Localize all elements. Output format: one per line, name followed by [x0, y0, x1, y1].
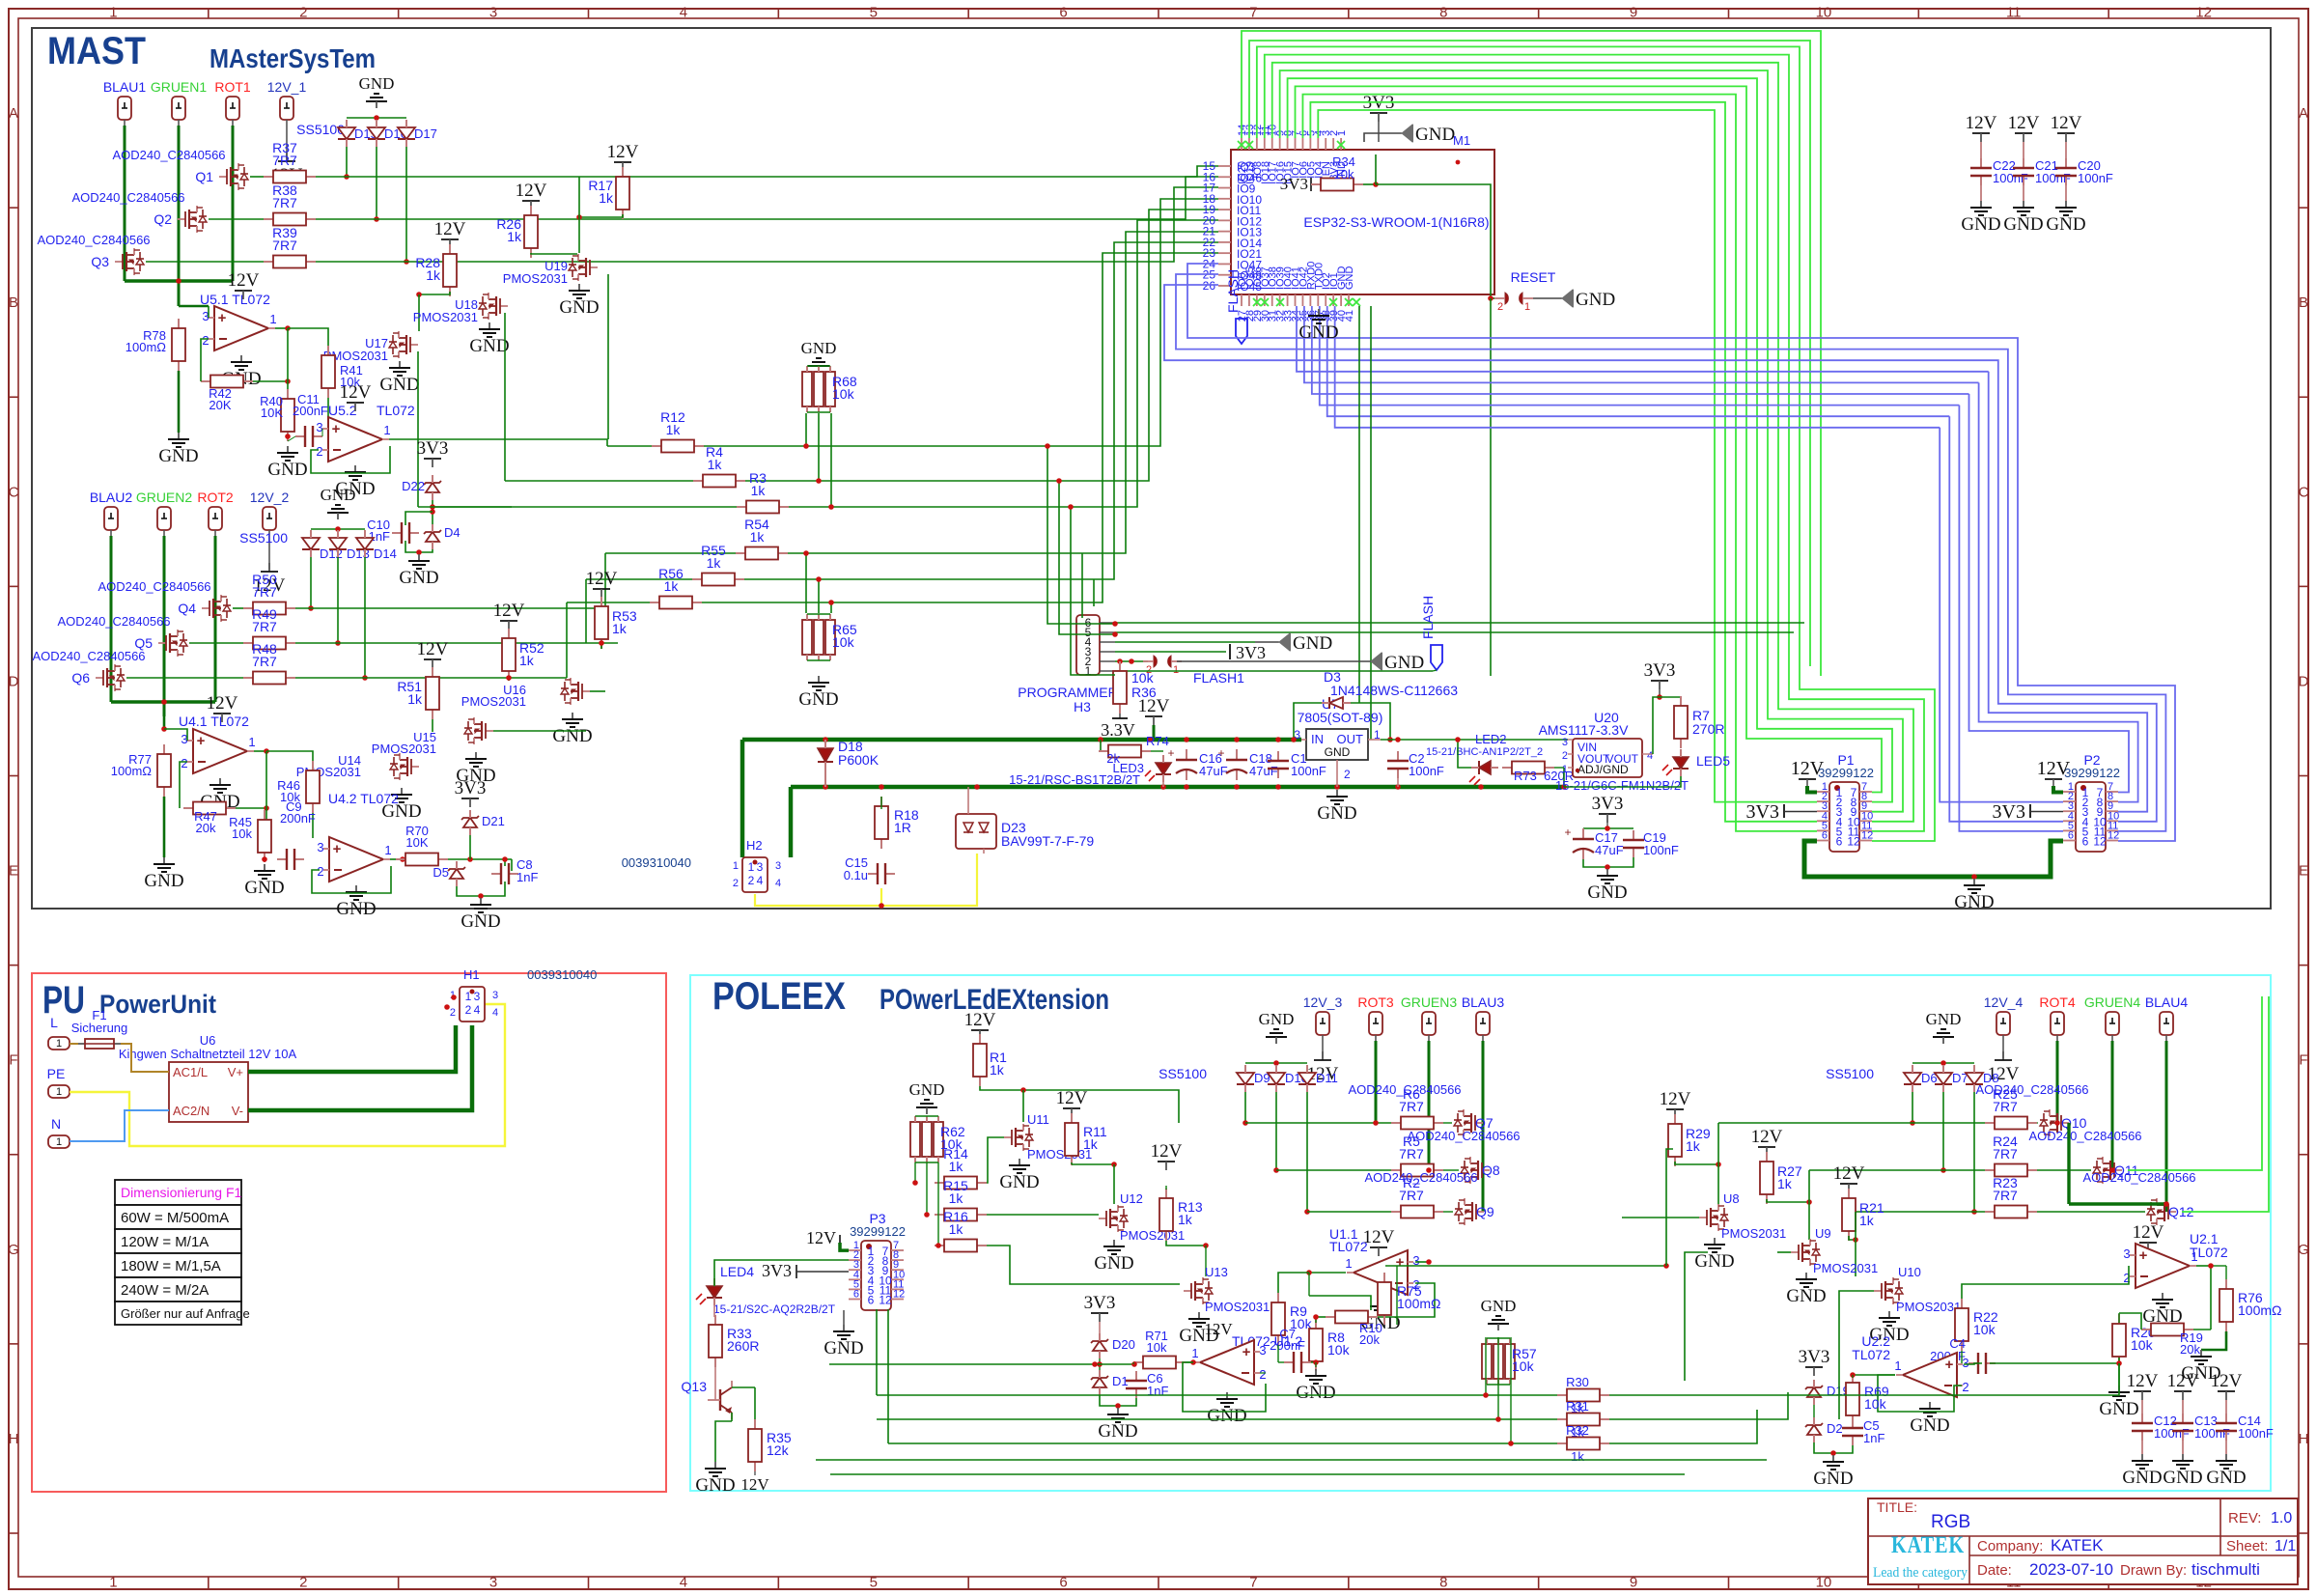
svg-text:7: 7 [1249, 1575, 1257, 1591]
svg-text:3V3: 3V3 [1799, 1347, 1830, 1367]
svg-text:GRUEN3: GRUEN3 [1401, 994, 1458, 1010]
svg-text:IN: IN [1311, 732, 1324, 746]
svg-text:2: 2 [450, 1007, 456, 1019]
svg-text:12k: 12k [767, 1442, 790, 1458]
svg-text:3: 3 [775, 860, 781, 872]
svg-text:7R7: 7R7 [272, 238, 297, 253]
svg-text:SS5100: SS5100 [296, 122, 345, 137]
svg-text:D22: D22 [402, 479, 425, 493]
svg-text:GND: GND [824, 1338, 863, 1358]
svg-text:12V: 12V [2167, 1371, 2199, 1391]
svg-text:Sicherung: Sicherung [71, 1021, 128, 1035]
svg-text:12V: 12V [2127, 1371, 2159, 1391]
svg-text:AOD240_C2840566: AOD240_C2840566 [112, 148, 225, 162]
svg-text:PU: PU [42, 979, 85, 1022]
svg-text:47uF: 47uF [1595, 843, 1624, 857]
svg-text:3V3: 3V3 [1084, 1293, 1116, 1313]
svg-text:PMOS2031: PMOS2031 [372, 742, 436, 756]
svg-text:GND: GND [1786, 1286, 1826, 1306]
svg-text:1k: 1k [708, 457, 723, 472]
svg-text:1k: 1k [407, 691, 423, 707]
svg-text:12V_2: 12V_2 [250, 490, 290, 505]
svg-text:GND: GND [2122, 1468, 2162, 1488]
svg-text:ROT1: ROT1 [214, 79, 251, 95]
svg-text:GND: GND [909, 1080, 945, 1099]
svg-text:C: C [2299, 484, 2309, 500]
svg-text:2: 2 [299, 5, 307, 21]
svg-text:260R: 260R [727, 1338, 759, 1354]
svg-text:1: 1 [733, 860, 739, 872]
svg-text:GND: GND [1576, 290, 1615, 310]
svg-text:GND: GND [2206, 1468, 2246, 1488]
svg-text:1: 1 [109, 5, 117, 21]
svg-text:KATEK: KATEK [2051, 1536, 2104, 1554]
svg-text:GND: GND [1926, 1010, 1962, 1028]
svg-text:7R7: 7R7 [272, 195, 297, 210]
svg-text:R74: R74 [1146, 734, 1169, 748]
svg-text:L: L [50, 1015, 58, 1030]
svg-text:GND: GND [2003, 214, 2043, 235]
svg-text:12V_3: 12V_3 [1303, 994, 1343, 1010]
svg-text:PMOS2031: PMOS2031 [1721, 1226, 1786, 1241]
svg-text:POLEEX: POLEEX [712, 975, 846, 1018]
svg-text:100mΩ: 100mΩ [126, 340, 167, 354]
svg-text:GND: GND [695, 1475, 735, 1496]
svg-text:PMOS2031: PMOS2031 [1896, 1300, 1961, 1314]
svg-text:ESP32-S3-WROOM-1(N16R8): ESP32-S3-WROOM-1(N16R8) [1303, 214, 1489, 230]
svg-text:12V: 12V [1056, 1088, 1088, 1108]
svg-text:GND: GND [1098, 1421, 1137, 1442]
svg-text:ROT2: ROT2 [197, 490, 234, 505]
svg-text:+: + [333, 841, 342, 857]
svg-text:1: 1 [1173, 664, 1179, 676]
svg-text:12V_4: 12V_4 [1984, 994, 2024, 1010]
svg-text:GND: GND [399, 568, 438, 588]
svg-text:PMOS2031: PMOS2031 [1813, 1261, 1878, 1275]
svg-text:+: + [1217, 746, 1224, 760]
svg-text:F: F [9, 1052, 17, 1069]
svg-text:RGB: RGB [1931, 1512, 1970, 1532]
svg-text:6: 6 [868, 1294, 875, 1307]
svg-text:Dimensionierung F1: Dimensionierung F1 [121, 1185, 241, 1200]
svg-text:GND: GND [158, 446, 198, 466]
svg-text:H3: H3 [1074, 699, 1091, 714]
svg-text:2: 2 [299, 1575, 307, 1591]
svg-text:A: A [2299, 105, 2308, 122]
svg-text:1R: 1R [894, 820, 911, 835]
svg-text:AOD240_C2840566: AOD240_C2840566 [98, 579, 210, 594]
svg-text:26: 26 [1203, 279, 1216, 293]
svg-text:15-21/G6C-FM1N2B/2T: 15-21/G6C-FM1N2B/2T [1555, 778, 1689, 793]
svg-text:PMOS2031: PMOS2031 [1205, 1300, 1270, 1314]
svg-text:AOD240_C2840566: AOD240_C2840566 [57, 614, 170, 629]
svg-text:PMOS2031: PMOS2031 [461, 694, 526, 709]
svg-text:1nF: 1nF [1863, 1431, 1884, 1445]
svg-text:TL072: TL072 [377, 403, 415, 418]
svg-text:12V: 12V [607, 142, 639, 162]
svg-text:41: 41 [1344, 310, 1355, 322]
svg-text:12V: 12V [2133, 1222, 2164, 1243]
svg-text:D14: D14 [374, 546, 397, 561]
svg-text:D20: D20 [1112, 1337, 1135, 1352]
svg-text:Q8: Q8 [1482, 1162, 1500, 1178]
svg-text:10k: 10k [232, 826, 252, 841]
svg-text:1/1: 1/1 [2275, 1538, 2296, 1554]
svg-text:100mΩ: 100mΩ [2238, 1302, 2282, 1318]
svg-text:12V: 12V [1833, 1163, 1865, 1184]
svg-text:LED5: LED5 [1696, 753, 1730, 769]
svg-text:12V: 12V [2211, 1371, 2243, 1391]
svg-text:2: 2 [1562, 750, 1568, 762]
svg-text:7R7: 7R7 [1399, 1146, 1424, 1162]
svg-text:12: 12 [1847, 835, 1860, 849]
svg-text:3: 3 [317, 840, 323, 854]
svg-text:AOD240_C2840566: AOD240_C2840566 [1348, 1082, 1461, 1097]
svg-text:AOD240_C2840566: AOD240_C2840566 [2028, 1129, 2141, 1143]
svg-text:2: 2 [1497, 301, 1503, 313]
svg-text:12V: 12V [2008, 113, 2040, 133]
svg-text:120W = M/1A: 120W = M/1A [121, 1234, 209, 1250]
svg-text:3V3: 3V3 [455, 778, 487, 798]
svg-text:PE: PE [47, 1066, 66, 1081]
svg-text:1: 1 [1894, 1358, 1901, 1373]
svg-text:12V_1: 12V_1 [267, 79, 307, 95]
svg-text:4: 4 [492, 1007, 498, 1019]
svg-text:2: 2 [181, 756, 187, 770]
svg-text:B: B [2299, 294, 2308, 311]
svg-text:AC1/L: AC1/L [173, 1065, 208, 1079]
svg-text:10k: 10k [832, 386, 855, 402]
svg-text:3: 3 [492, 990, 498, 1001]
svg-text:U11: U11 [1027, 1112, 1049, 1127]
svg-text:1.0: 1.0 [2271, 1510, 2292, 1526]
svg-text:U10: U10 [1898, 1265, 1921, 1279]
svg-text:15-21/S2C-AQ2R2B/2T: 15-21/S2C-AQ2R2B/2T [713, 1302, 836, 1316]
svg-text:1k: 1k [664, 578, 680, 594]
svg-text:10k: 10k [1864, 1396, 1887, 1412]
svg-text:G: G [2298, 1242, 2309, 1258]
svg-text:Kingwen Schaltnetzteil 12V 10A: Kingwen Schaltnetzteil 12V 10A [119, 1047, 297, 1061]
svg-text:1nF: 1nF [516, 870, 538, 884]
svg-text:GND: GND [1910, 1415, 1949, 1436]
svg-text:Date:: Date: [1977, 1562, 2012, 1579]
svg-text:GND: GND [1259, 1010, 1295, 1028]
svg-text:1: 1 [1345, 1256, 1352, 1271]
svg-text:Q3: Q3 [91, 254, 109, 269]
svg-text:1k: 1k [1686, 1138, 1701, 1154]
svg-text:2: 2 [202, 333, 209, 348]
svg-text:2: 2 [748, 874, 755, 887]
svg-text:1k: 1k [949, 1159, 964, 1174]
svg-text:15-21/BHC-AN1P2/2T_2: 15-21/BHC-AN1P2/2T_2 [1426, 746, 1543, 758]
svg-text:3V3: 3V3 [1993, 801, 2025, 823]
svg-text:1k: 1k [949, 1221, 964, 1237]
svg-text:C: C [9, 484, 19, 500]
svg-text:Sheet:: Sheet: [2226, 1538, 2268, 1554]
svg-text:V-: V- [232, 1104, 243, 1118]
svg-text:GND: GND [321, 486, 356, 504]
svg-text:1: 1 [1562, 764, 1568, 775]
svg-text:OUT: OUT [1337, 732, 1364, 746]
svg-text:1: 1 [56, 1038, 62, 1050]
svg-text:RESET: RESET [1511, 269, 1556, 285]
svg-text:12V: 12V [516, 181, 547, 201]
svg-text:1k: 1k [1859, 1213, 1875, 1228]
svg-text:GND: GND [1587, 882, 1627, 903]
svg-text:12V: 12V [207, 693, 238, 714]
svg-text:12V: 12V [434, 219, 466, 239]
svg-text:8: 8 [1439, 1575, 1447, 1591]
svg-text:10K: 10K [405, 835, 428, 850]
svg-text:200nF: 200nF [280, 811, 316, 826]
svg-text:20k: 20k [2180, 1342, 2200, 1357]
svg-text:GND: GND [1415, 125, 1455, 145]
svg-text:1k: 1k [1178, 1212, 1193, 1227]
svg-text:G: G [8, 1242, 19, 1258]
svg-text:7R7: 7R7 [1399, 1188, 1424, 1203]
svg-text:100nF: 100nF [2194, 1426, 2230, 1441]
svg-text:2023-07-10: 2023-07-10 [2029, 1560, 2113, 1579]
svg-text:3V3: 3V3 [417, 438, 449, 459]
svg-text:7R7: 7R7 [252, 654, 277, 669]
svg-text:MAST: MAST [47, 30, 146, 72]
svg-text:4: 4 [680, 1575, 687, 1591]
svg-text:MAsterSysTem: MAsterSysTem [209, 43, 376, 73]
svg-text:GND: GND [1296, 1383, 1335, 1403]
svg-text:12V: 12V [1660, 1089, 1691, 1109]
svg-text:10K: 10K [261, 406, 283, 420]
svg-text:GND: GND [798, 689, 838, 710]
svg-text:3: 3 [2123, 1246, 2130, 1261]
svg-text:D4: D4 [444, 525, 461, 540]
svg-text:GRUEN2: GRUEN2 [136, 490, 193, 505]
svg-text:GND: GND [1344, 266, 1355, 291]
svg-text:H2: H2 [746, 838, 763, 853]
svg-text:15-21/RSC-BS1T2B/2T: 15-21/RSC-BS1T2B/2T [1009, 772, 1140, 787]
svg-text:GND: GND [1961, 214, 2000, 235]
svg-text:3V3: 3V3 [1236, 643, 1266, 662]
svg-text:+: + [2139, 1247, 2148, 1264]
svg-text:1k: 1k [751, 483, 767, 498]
svg-text:GRUEN4: GRUEN4 [2084, 994, 2141, 1010]
svg-text:60W = M/500mA: 60W = M/500mA [121, 1210, 229, 1226]
svg-text:TITLE:: TITLE: [1877, 1499, 1917, 1515]
svg-text:Größer nur auf Anfrage: Größer nur auf Anfrage [121, 1306, 250, 1321]
svg-text:6: 6 [2068, 830, 2074, 842]
svg-text:H: H [2299, 1431, 2309, 1447]
svg-text:GND: GND [552, 726, 592, 746]
svg-text:1: 1 [383, 423, 390, 437]
svg-text:100nF: 100nF [2238, 1426, 2274, 1441]
svg-text:1k: 1k [1571, 1449, 1584, 1464]
svg-text:1: 1 [109, 1575, 117, 1591]
svg-text:GND: GND [1813, 1469, 1853, 1489]
svg-text:+: + [1945, 1357, 1954, 1373]
svg-text:1k: 1k [519, 653, 535, 668]
svg-text:REV:: REV: [2228, 1510, 2261, 1526]
svg-text:Q9: Q9 [1476, 1204, 1494, 1219]
svg-text:R30: R30 [1566, 1375, 1589, 1389]
svg-text:D: D [9, 673, 19, 689]
svg-text:FLASH: FLASH [1420, 596, 1436, 639]
svg-text:U4.1 TL072: U4.1 TL072 [179, 714, 249, 729]
svg-text:U9: U9 [1815, 1226, 1831, 1241]
svg-text:100mΩ: 100mΩ [111, 764, 153, 778]
svg-text:10k: 10k [1334, 167, 1354, 182]
svg-text:12V: 12V [1751, 1127, 1783, 1147]
svg-text:AOD240_C2840566: AOD240_C2840566 [1975, 1082, 2088, 1097]
svg-text:1k: 1k [1777, 1176, 1793, 1191]
svg-text:ROT3: ROT3 [1357, 994, 1394, 1010]
svg-text:AOD240_C2840566: AOD240_C2840566 [37, 233, 150, 247]
svg-text:9: 9 [1630, 1575, 1637, 1591]
svg-text:6: 6 [1822, 830, 1828, 842]
svg-text:2: 2 [317, 864, 323, 879]
svg-text:GND: GND [1954, 892, 1994, 912]
svg-text:BLAU2: BLAU2 [90, 490, 133, 505]
svg-text:4: 4 [757, 874, 764, 887]
svg-text:2: 2 [1259, 1367, 1266, 1382]
svg-text:12V: 12V [340, 382, 372, 403]
svg-text:1: 1 [269, 312, 276, 326]
svg-text:12V: 12V [1204, 1320, 1233, 1338]
svg-text:AOD240_C2840566: AOD240_C2840566 [2082, 1170, 2195, 1185]
svg-text:3V3: 3V3 [1644, 660, 1676, 681]
svg-text:6: 6 [1059, 1575, 1067, 1591]
svg-text:1k: 1k [507, 229, 522, 244]
svg-text:12V: 12V [1138, 696, 1170, 716]
svg-text:PMOS2031: PMOS2031 [503, 271, 568, 286]
svg-text:KATEK: KATEK [1891, 1532, 1965, 1558]
svg-text:1k: 1k [750, 529, 766, 545]
svg-text:FLASH: FLASH [1225, 269, 1241, 313]
svg-text:12V: 12V [228, 270, 260, 291]
svg-text:+: + [218, 310, 227, 326]
svg-text:7R7: 7R7 [1993, 1146, 2018, 1162]
svg-text:FLASH1: FLASH1 [1193, 670, 1244, 686]
svg-text:10k: 10k [2131, 1337, 2154, 1353]
svg-text:9: 9 [1630, 5, 1637, 21]
svg-text:H: H [9, 1431, 19, 1447]
svg-text:SS5100: SS5100 [1826, 1066, 1874, 1081]
svg-text:47uF: 47uF [1249, 764, 1278, 778]
svg-text:A: A [9, 105, 18, 122]
svg-text:100mΩ: 100mΩ [1397, 1296, 1441, 1311]
svg-text:10: 10 [1816, 5, 1832, 21]
svg-text:GND: GND [359, 74, 395, 93]
svg-text:GND: GND [267, 460, 307, 480]
svg-text:5: 5 [870, 5, 878, 21]
svg-text:12V: 12V [1966, 113, 1997, 133]
svg-text:12V: 12V [2051, 113, 2082, 133]
svg-text:6: 6 [1059, 5, 1067, 21]
svg-text:F: F [2299, 1052, 2307, 1069]
svg-text:240W = M/2A: 240W = M/2A [121, 1282, 209, 1299]
svg-text:BLAU4: BLAU4 [2145, 994, 2189, 1010]
svg-text:12: 12 [2093, 835, 2107, 849]
svg-text:GND: GND [144, 871, 183, 891]
svg-text:12V: 12V [586, 569, 618, 589]
svg-text:BAV99T-7-F-79: BAV99T-7-F-79 [1001, 833, 1094, 849]
svg-text:20K: 20K [209, 398, 231, 412]
svg-text:tischmulti: tischmulti [2191, 1560, 2260, 1579]
svg-text:E: E [2299, 863, 2308, 880]
svg-text:6: 6 [853, 1289, 859, 1301]
svg-text:U4.2 TL072: U4.2 TL072 [328, 791, 399, 806]
svg-text:H1: H1 [463, 967, 480, 982]
svg-text:10k: 10k [832, 634, 855, 650]
svg-text:8: 8 [1439, 5, 1447, 21]
svg-text:GND: GND [2046, 214, 2085, 235]
svg-text:D5: D5 [433, 865, 449, 880]
svg-text:12V: 12V [2037, 758, 2071, 779]
svg-text:V+: V+ [228, 1065, 243, 1079]
svg-text:2: 2 [1962, 1380, 1968, 1394]
svg-text:10k: 10k [1327, 1342, 1351, 1358]
svg-text:10: 10 [1816, 1575, 1832, 1591]
svg-text:Q2: Q2 [154, 211, 172, 227]
svg-text:12V: 12V [1151, 1141, 1183, 1162]
svg-text:PROGRAMMER: PROGRAMMER [1018, 685, 1117, 700]
svg-text:100nF: 100nF [1409, 764, 1444, 778]
svg-text:GND: GND [1317, 803, 1356, 824]
svg-text:Company:: Company: [1977, 1538, 2043, 1554]
svg-text:PMOS2031: PMOS2031 [1120, 1228, 1185, 1243]
svg-text:100nF: 100nF [2078, 171, 2113, 185]
svg-text:AMS1117-3.3V: AMS1117-3.3V [1539, 722, 1630, 738]
svg-text:3: 3 [757, 860, 764, 874]
svg-text:AOD240_C2840566: AOD240_C2840566 [1364, 1170, 1477, 1185]
svg-text:12V: 12V [740, 1475, 769, 1494]
svg-text:1: 1 [1524, 301, 1530, 313]
svg-text:GND: GND [469, 336, 509, 356]
svg-text:GND: GND [1207, 1406, 1246, 1426]
svg-text:E: E [9, 863, 18, 880]
svg-text:1: 1 [248, 735, 255, 749]
svg-text:6: 6 [2082, 835, 2089, 849]
svg-text:+: + [1242, 1344, 1251, 1360]
svg-text:10k: 10k [1147, 1340, 1167, 1355]
svg-text:Q13: Q13 [682, 1379, 708, 1394]
svg-text:U12: U12 [1120, 1191, 1143, 1206]
svg-text:1: 1 [2191, 1249, 2197, 1264]
svg-text:PowerUnit: PowerUnit [99, 990, 216, 1019]
svg-text:GND: GND [336, 899, 376, 919]
svg-text:1k: 1k [426, 267, 441, 283]
svg-text:+: + [1167, 746, 1174, 760]
svg-text:3V3: 3V3 [1746, 801, 1779, 823]
svg-text:GND: GND [1298, 322, 1338, 343]
svg-text:1k: 1k [990, 1062, 1005, 1078]
svg-text:1k: 1k [612, 621, 628, 636]
svg-text:39299122: 39299122 [1818, 766, 1874, 780]
svg-text:100nF: 100nF [1291, 764, 1326, 778]
svg-text:12V: 12V [964, 1010, 996, 1030]
svg-text:SS5100: SS5100 [1158, 1066, 1207, 1081]
svg-text:AOD240_C2840566: AOD240_C2840566 [32, 649, 145, 663]
svg-text:7R7: 7R7 [1993, 1188, 2018, 1203]
svg-text:3: 3 [1562, 737, 1568, 748]
svg-text:ROT4: ROT4 [2039, 994, 2076, 1010]
svg-text:12: 12 [893, 1289, 905, 1301]
svg-text:1N4148WS-C112663: 1N4148WS-C112663 [1330, 683, 1458, 698]
svg-text:100nF: 100nF [2154, 1426, 2190, 1441]
svg-text:GND: GND [1325, 745, 1351, 759]
svg-text:100nF: 100nF [1643, 843, 1679, 857]
svg-text:AC2/N: AC2/N [173, 1104, 209, 1118]
svg-text:12V: 12V [1363, 1227, 1395, 1247]
svg-text:12V: 12V [493, 601, 525, 621]
